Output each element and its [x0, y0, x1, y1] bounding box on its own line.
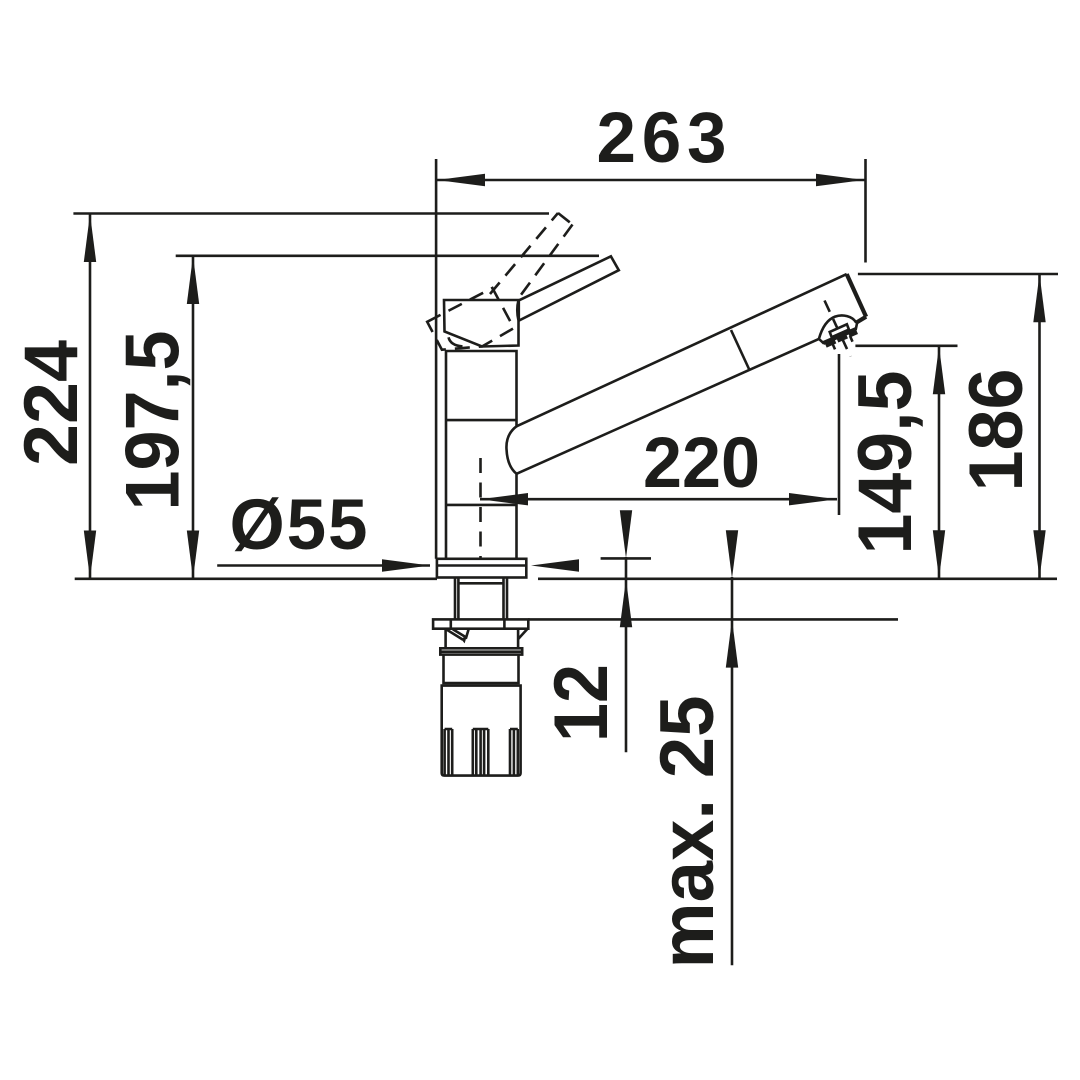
aerator face — [823, 329, 856, 343]
dimension 220 line — [480, 498, 837, 501]
arrow diameter55 pointing right — [382, 559, 430, 571]
extension line top of solid handle (197,5 ref) — [176, 255, 599, 258]
mounting washer — [433, 619, 528, 628]
dimension 12 arrow upper — [620, 510, 632, 558]
dimension 263 line — [436, 179, 864, 182]
arrow 197,5 bottom — [187, 531, 199, 579]
extension line right x865.5 — [864, 159, 867, 263]
faucet body — [446, 351, 517, 559]
aerator centerline — [825, 301, 851, 357]
aerator insert rectangle — [830, 324, 849, 337]
arrow 186 bottom — [1033, 530, 1045, 578]
nut slots left group — [445, 729, 453, 775]
washer top reference line (max.25 ref) — [528, 618, 898, 621]
body section line upper — [446, 419, 517, 422]
svg-text:12: 12 — [539, 664, 624, 742]
spout top edge — [517, 274, 847, 426]
arrow 224 top — [84, 214, 96, 262]
svg-text:max. 25: max. 25 — [645, 696, 730, 969]
extension line aerator x839 — [838, 354, 841, 515]
solid handle lever — [519, 256, 619, 320]
svg-text:186: 186 — [954, 369, 1039, 492]
arrow diameter55 pointing left — [531, 559, 579, 571]
dimension diameter 55 line — [217, 564, 430, 567]
flange mid line — [437, 564, 526, 567]
dashed handle head (raised position) — [427, 288, 514, 350]
tick flange top (12 ref) — [601, 557, 651, 560]
aerator dome — [819, 315, 857, 343]
worktop line right segment — [538, 577, 1057, 580]
dimension 197,5 line — [192, 256, 195, 579]
shank outer — [455, 578, 507, 620]
mid cylinder — [444, 655, 519, 684]
dimension 12 lower line — [625, 557, 628, 752]
dimension 186 line — [1038, 274, 1041, 578]
body section line lower — [446, 504, 517, 507]
mixer head — [444, 300, 519, 347]
svg-text:149,5: 149,5 — [843, 371, 928, 555]
extension line left x436 — [435, 159, 438, 559]
dimension max.25 lower line — [731, 577, 734, 965]
spout end bottom edge — [857, 317, 867, 323]
aerator tick lower left — [833, 344, 836, 350]
arrow 220 right — [789, 493, 837, 505]
washer notch right — [503, 619, 506, 628]
aerator reference line (149,5 ref) — [855, 344, 957, 347]
arrow 224 bottom — [84, 531, 96, 579]
nut slots middle group — [473, 729, 489, 775]
joint arc — [449, 337, 463, 346]
spout joint line — [731, 330, 749, 369]
claw left — [446, 629, 469, 639]
spout tip top reference line (186 ref) — [858, 273, 1058, 276]
spacer body — [446, 629, 518, 649]
svg-text:224: 224 — [9, 340, 94, 466]
flange escutcheon — [437, 559, 526, 578]
arrow 149,5 top — [933, 346, 945, 394]
arrow 186 top — [1033, 274, 1045, 322]
spout end face — [847, 274, 866, 317]
dimension 224 line — [89, 214, 92, 579]
ring mid line — [440, 650, 522, 653]
dimension 12 arrow lower — [620, 579, 632, 627]
dashed handle lever (raised position) — [490, 213, 573, 299]
arrow 263 right — [816, 174, 864, 186]
nut slots right group — [510, 729, 518, 775]
shank inner — [458, 578, 503, 620]
claw right — [518, 629, 527, 639]
claw left tooth — [461, 636, 467, 643]
dimension max.25 arrow upper — [726, 530, 738, 578]
dimension 149,5 line — [938, 346, 941, 578]
arrow 197,5 top — [187, 256, 199, 304]
svg-text:263: 263 — [597, 99, 727, 178]
svg-text:197,5: 197,5 — [111, 331, 196, 511]
washer notch left — [449, 619, 452, 628]
svg-text:220: 220 — [643, 424, 760, 503]
spout bottom edge — [517, 339, 819, 474]
ring — [440, 648, 522, 654]
worktop line left segment — [75, 577, 437, 580]
arrow 263 left — [437, 174, 485, 186]
aerator spray band — [825, 331, 856, 345]
nut body — [442, 686, 521, 776]
dimension max.25 arrow lower — [726, 620, 738, 668]
extension line top of dashed handle (224 ref) — [73, 212, 549, 215]
svg-text:Ø55: Ø55 — [230, 486, 368, 565]
arrow 220 left — [480, 493, 528, 505]
arrow 149,5 bottom — [933, 530, 945, 578]
aerator tick lower right — [850, 336, 853, 342]
centerline body — [479, 458, 482, 578]
